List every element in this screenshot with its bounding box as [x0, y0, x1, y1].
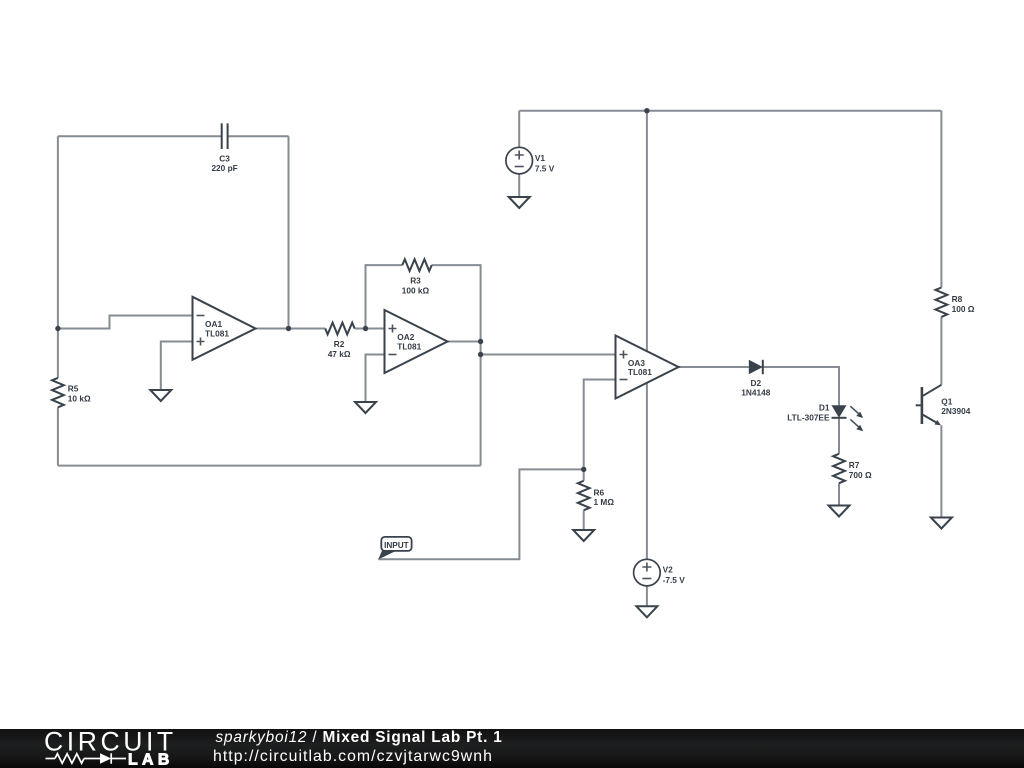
wire node A up to R3 left — [366, 265, 403, 328]
INPUT flag tail — [378, 551, 396, 560]
wire input node left and down to INPUT flag — [378, 469, 583, 559]
svg-text:1N4148: 1N4148 — [741, 387, 770, 397]
wire R6 top lead — [583, 469, 585, 480]
op-amp OA3 plus marker — [620, 351, 628, 359]
ground under OA1 non-inverting input — [150, 390, 171, 401]
svg-text:TL081: TL081 — [205, 328, 229, 338]
voltage source V2 plus — [642, 563, 651, 572]
junction node at OA2 output — [478, 339, 483, 344]
voltage source V2 minus — [642, 578, 651, 580]
wire middle rail down through OA3 to V2 — [646, 111, 648, 560]
svg-text:R7: R7 — [849, 460, 860, 470]
wire left vertical C3 loop down to R5 — [57, 136, 59, 378]
svg-text:D1: D1 — [819, 403, 830, 413]
op-amp OA3 minus marker — [620, 379, 628, 381]
ground under R7 — [829, 506, 850, 517]
wire C3 right plate to right corner — [228, 135, 289, 137]
voltage source V1 plus — [515, 151, 524, 160]
wire OA2 inverting input to ground — [366, 355, 385, 403]
wire D2 to corner and down to D1 — [763, 367, 839, 405]
wire right rail down to R8 — [940, 111, 942, 288]
wire OA2 output — [448, 341, 481, 343]
junction node at R5 / OA1 input — [55, 326, 60, 331]
voltage source V1 circle — [506, 147, 533, 174]
wire V1 top to supply rail — [518, 111, 520, 148]
svg-text:R3: R3 — [410, 276, 421, 286]
resistor R6 zigzag — [578, 481, 590, 510]
wire V2 bottom to ground — [646, 586, 648, 606]
transistor Q1 collector lead — [923, 385, 942, 396]
resistor R5 zigzag — [52, 378, 64, 407]
wire R3 right to OA2 output node — [432, 265, 481, 341]
svg-text:220 pF: 220 pF — [211, 163, 237, 173]
svg-text:LTL-307EE: LTL-307EE — [787, 412, 830, 422]
junction node at V1 rail / middle rail — [644, 108, 649, 113]
svg-text:1 MΩ: 1 MΩ — [594, 497, 615, 507]
INPUT flag box — [381, 537, 411, 551]
wire OA1 output to R2 — [256, 328, 326, 330]
wire OA1 inverting input step — [58, 316, 193, 329]
diode D2 bar — [762, 360, 764, 374]
resistor R8 zigzag — [936, 288, 948, 317]
op-amp OA1 minus marker — [197, 315, 205, 317]
wire OA1 non-inverting input to ground — [161, 342, 193, 391]
wire C3 right vertical down to OA1 output node — [288, 136, 290, 328]
op-amp U OA3 body — [616, 336, 679, 399]
wire Q1 emitter down to ground — [940, 425, 942, 517]
transistor Q1 emitter arrowhead — [935, 420, 942, 425]
wire R7 bottom to ground — [838, 483, 840, 505]
svg-text:R2: R2 — [334, 339, 345, 349]
svg-text:100 kΩ: 100 kΩ — [402, 285, 430, 295]
resistor R7 zigzag — [833, 454, 845, 483]
wire V1 bottom to ground — [518, 174, 520, 197]
ground under V1 — [509, 197, 530, 208]
LED D1 emission arrow 1 head — [856, 412, 863, 418]
svg-text:C3: C3 — [219, 153, 230, 163]
op-amp U OA1 body — [193, 297, 256, 360]
wire R8 to Q1 collector — [940, 317, 942, 385]
svg-text:-7.5 V: -7.5 V — [663, 575, 686, 585]
LED D1 emission arrow 2 shaft — [850, 419, 858, 426]
svg-text:7.5 V: 7.5 V — [535, 163, 555, 173]
wire R6 bottom to ground — [583, 510, 585, 530]
diode D2 triangle — [749, 360, 763, 374]
capacitor C3 plates — [222, 123, 228, 149]
svg-text:LAB: LAB — [128, 752, 174, 768]
svg-text:R8: R8 — [952, 294, 963, 304]
svg-text:V1: V1 — [535, 153, 546, 163]
svg-text:2N3904: 2N3904 — [941, 406, 970, 416]
op-amp OA2 plus marker — [389, 325, 397, 333]
svg-text:R6: R6 — [594, 488, 605, 498]
transistor Q1 base bar — [921, 387, 924, 424]
wire top supply rail horizontal — [519, 110, 941, 112]
LED D1 emission arrow 1 shaft — [850, 406, 858, 413]
svg-text:47 kΩ: 47 kΩ — [328, 349, 351, 359]
op-amp OA2 minus marker — [389, 354, 397, 356]
transistor Q1 emitter lead — [923, 415, 936, 423]
ground under V2 — [636, 606, 657, 617]
LED D1 bar — [832, 417, 847, 419]
wire D1 to R7 — [838, 418, 840, 454]
wire bottom feedback horizontal — [58, 465, 481, 467]
junction node at R6 / OA3 inverting — [581, 467, 586, 472]
svg-text:TL081: TL081 — [628, 367, 652, 377]
wire OA3 inverting input down to input node — [584, 380, 616, 470]
wire R2 to OA2 non-inverting input — [355, 328, 385, 330]
wire feedback vertical up to OA2 output — [480, 342, 482, 466]
junction node at OA3 non-inverting branch — [478, 352, 483, 357]
junction node at OA1 output / C3 — [286, 326, 291, 331]
LED D1 emission arrow 2 head — [856, 425, 863, 431]
wire R5 bottom to feedback rail — [57, 407, 59, 465]
wire OA3 output to D2 — [679, 366, 749, 368]
svg-text:700 Ω: 700 Ω — [849, 470, 872, 480]
resistor R3 zigzag — [402, 259, 431, 271]
LED D1 triangle — [832, 405, 847, 418]
voltage source V2 circle — [634, 559, 661, 586]
wire top-left horizontal to C3 left plate — [58, 135, 222, 137]
svg-text:10 kΩ: 10 kΩ — [68, 393, 91, 403]
op-amp U OA2 body — [385, 310, 448, 373]
ground under R6 — [573, 530, 594, 541]
op-amp OA1 plus marker — [197, 338, 205, 346]
transistor Q1 base stub — [916, 404, 921, 406]
ground under Q1 emitter — [931, 518, 952, 529]
ground under OA2 inverting input — [355, 402, 376, 413]
voltage source V1 minus — [515, 166, 524, 168]
svg-text:D2: D2 — [750, 378, 761, 388]
wire OA2 output node to OA3 non-inverting input — [481, 354, 616, 356]
svg-text:V2: V2 — [663, 565, 674, 575]
svg-text:TL081: TL081 — [397, 341, 421, 351]
CircuitLab logo — [0, 729, 210, 768]
svg-text:INPUT: INPUT — [384, 541, 409, 550]
junction node at R2 / R3 / OA2 input — [363, 326, 368, 331]
svg-text:R5: R5 — [68, 384, 79, 394]
resistor R2 zigzag — [325, 323, 354, 335]
footer bar — [0, 729, 1024, 768]
svg-text:100 Ω: 100 Ω — [952, 304, 975, 314]
